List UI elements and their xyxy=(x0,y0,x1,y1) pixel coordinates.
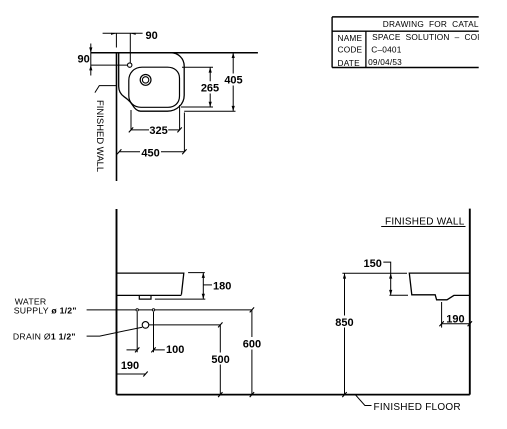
svg-text:600: 600 xyxy=(243,339,261,351)
svg-text:FINISHED WALL: FINISHED WALL xyxy=(95,100,106,172)
title block column divider xyxy=(365,31,367,67)
dim 325: extension lines xyxy=(131,105,180,130)
svg-text:C–0401: C–0401 xyxy=(371,45,401,55)
leader DRAIN xyxy=(87,327,143,336)
dim 100: oblique ticks xyxy=(135,347,156,352)
dim 150: extension lines xyxy=(342,273,408,295)
wall line (front) xyxy=(116,209,118,395)
dim 265: dimension line xyxy=(209,67,211,107)
dim 850: dimension line xyxy=(344,273,346,394)
svg-text:SUPPLY ø 1/2": SUPPLY ø 1/2" xyxy=(14,306,77,316)
overflow hole inner (plan) xyxy=(142,77,148,83)
dim 100: dimension line pieces xyxy=(127,349,165,351)
dim 150: arrowheads xyxy=(389,273,392,295)
FINISHED WALL underline (side) xyxy=(381,226,465,228)
title block row separator xyxy=(332,30,479,32)
dim 500: dimension line xyxy=(219,325,221,395)
svg-text:100: 100 xyxy=(166,344,184,356)
svg-text:FINISHED WALL: FINISHED WALL xyxy=(385,216,465,227)
svg-text:190: 190 xyxy=(446,313,464,325)
svg-text:DATE: DATE xyxy=(338,58,361,68)
svg-text:09/04/53: 09/04/53 xyxy=(368,57,402,67)
dim 600: oblique ticks xyxy=(250,307,254,397)
dim 190 side: extension line xyxy=(441,302,443,328)
svg-text:325: 325 xyxy=(149,125,167,137)
dim 90 top: extension lines xyxy=(116,33,130,62)
supply hole right (front) xyxy=(152,309,154,311)
svg-text:NAME: NAME xyxy=(338,33,363,43)
title block left border xyxy=(331,17,333,68)
wall left line (plan) xyxy=(116,53,118,181)
svg-text:FINISHED FLOOR: FINISHED FLOOR xyxy=(374,402,461,413)
title block bottom border xyxy=(332,67,479,69)
dim 600: dimension line xyxy=(251,310,253,395)
dim 405: dimension line xyxy=(232,53,234,111)
dim 450: right extension line xyxy=(183,113,185,152)
water supply line xyxy=(87,309,252,311)
svg-text:180: 180 xyxy=(213,281,231,293)
basin outer outline (plan) xyxy=(119,53,185,111)
drain hole (front) xyxy=(142,322,149,329)
dim 325: oblique ticks xyxy=(129,127,182,132)
dim 180: extension lines xyxy=(155,273,205,300)
dim 180: dimension line xyxy=(202,273,204,300)
dim 190 side: dimension line xyxy=(442,323,470,325)
dim 180: text connector xyxy=(203,284,212,286)
basin outline (front) xyxy=(117,273,184,295)
svg-text:500: 500 xyxy=(211,354,229,366)
dim 450: dimension line xyxy=(119,151,184,153)
dim 265: extension lines xyxy=(181,67,213,107)
dim 90 left: dimension line (vertical) xyxy=(90,44,92,76)
leader FINISHED WALL (plan) xyxy=(95,86,117,93)
svg-text:DRAWING FOR CATALOG: DRAWING FOR CATALOG xyxy=(383,19,492,29)
svg-text:405: 405 xyxy=(224,75,242,87)
basin profile (side) xyxy=(409,273,470,300)
faucet hole (plan) xyxy=(128,63,132,67)
supply hole left (front) xyxy=(136,309,138,311)
svg-text:DRAIN Ø1 1/2": DRAIN Ø1 1/2" xyxy=(13,332,76,342)
dim 180: arrowheads xyxy=(202,273,205,300)
dim 850: top arrowhead xyxy=(343,273,346,278)
wall top line (plan) xyxy=(91,52,258,54)
dim 190 front: dimension line xyxy=(117,373,147,375)
dim 405: bottom extension line xyxy=(184,110,235,112)
svg-text:850: 850 xyxy=(335,317,353,329)
dim 450: oblique ticks xyxy=(117,149,187,154)
basin inner bowl (plan) xyxy=(129,67,180,107)
wall line (side) xyxy=(469,209,471,395)
dim 325: dimension line xyxy=(131,129,180,131)
dim 190 front: oblique tick xyxy=(143,372,147,377)
dim 90 top: arrowheads xyxy=(111,33,136,35)
dim 90 top: dimension line xyxy=(103,32,143,34)
dim 190 side: oblique ticks xyxy=(439,321,472,326)
svg-text:CODE: CODE xyxy=(338,45,363,55)
floor line xyxy=(117,394,470,396)
svg-text:90: 90 xyxy=(78,54,90,66)
dim 850: floor oblique tick xyxy=(342,392,346,397)
overflow hole outer (plan) xyxy=(140,75,151,86)
svg-text:265: 265 xyxy=(201,82,219,94)
dim 265: arrowheads xyxy=(209,67,212,107)
dim 90 left: arrowheads xyxy=(89,47,92,70)
title block top border xyxy=(332,16,479,18)
drain level line xyxy=(149,324,220,326)
svg-text:190: 190 xyxy=(121,360,139,372)
svg-text:150: 150 xyxy=(364,258,382,270)
drain tab (front) xyxy=(139,295,151,299)
dim 100: extension lines xyxy=(137,312,153,353)
dim 500: oblique ticks xyxy=(218,322,222,397)
dim 405: arrowheads xyxy=(232,53,235,111)
leader FINISHED FLOOR xyxy=(355,395,371,406)
svg-text:90: 90 xyxy=(146,30,158,42)
svg-text:450: 450 xyxy=(141,147,159,159)
dim 90 left: extension line at faucet level xyxy=(91,64,128,66)
dim 150: text bracket and dimension line xyxy=(383,262,390,295)
